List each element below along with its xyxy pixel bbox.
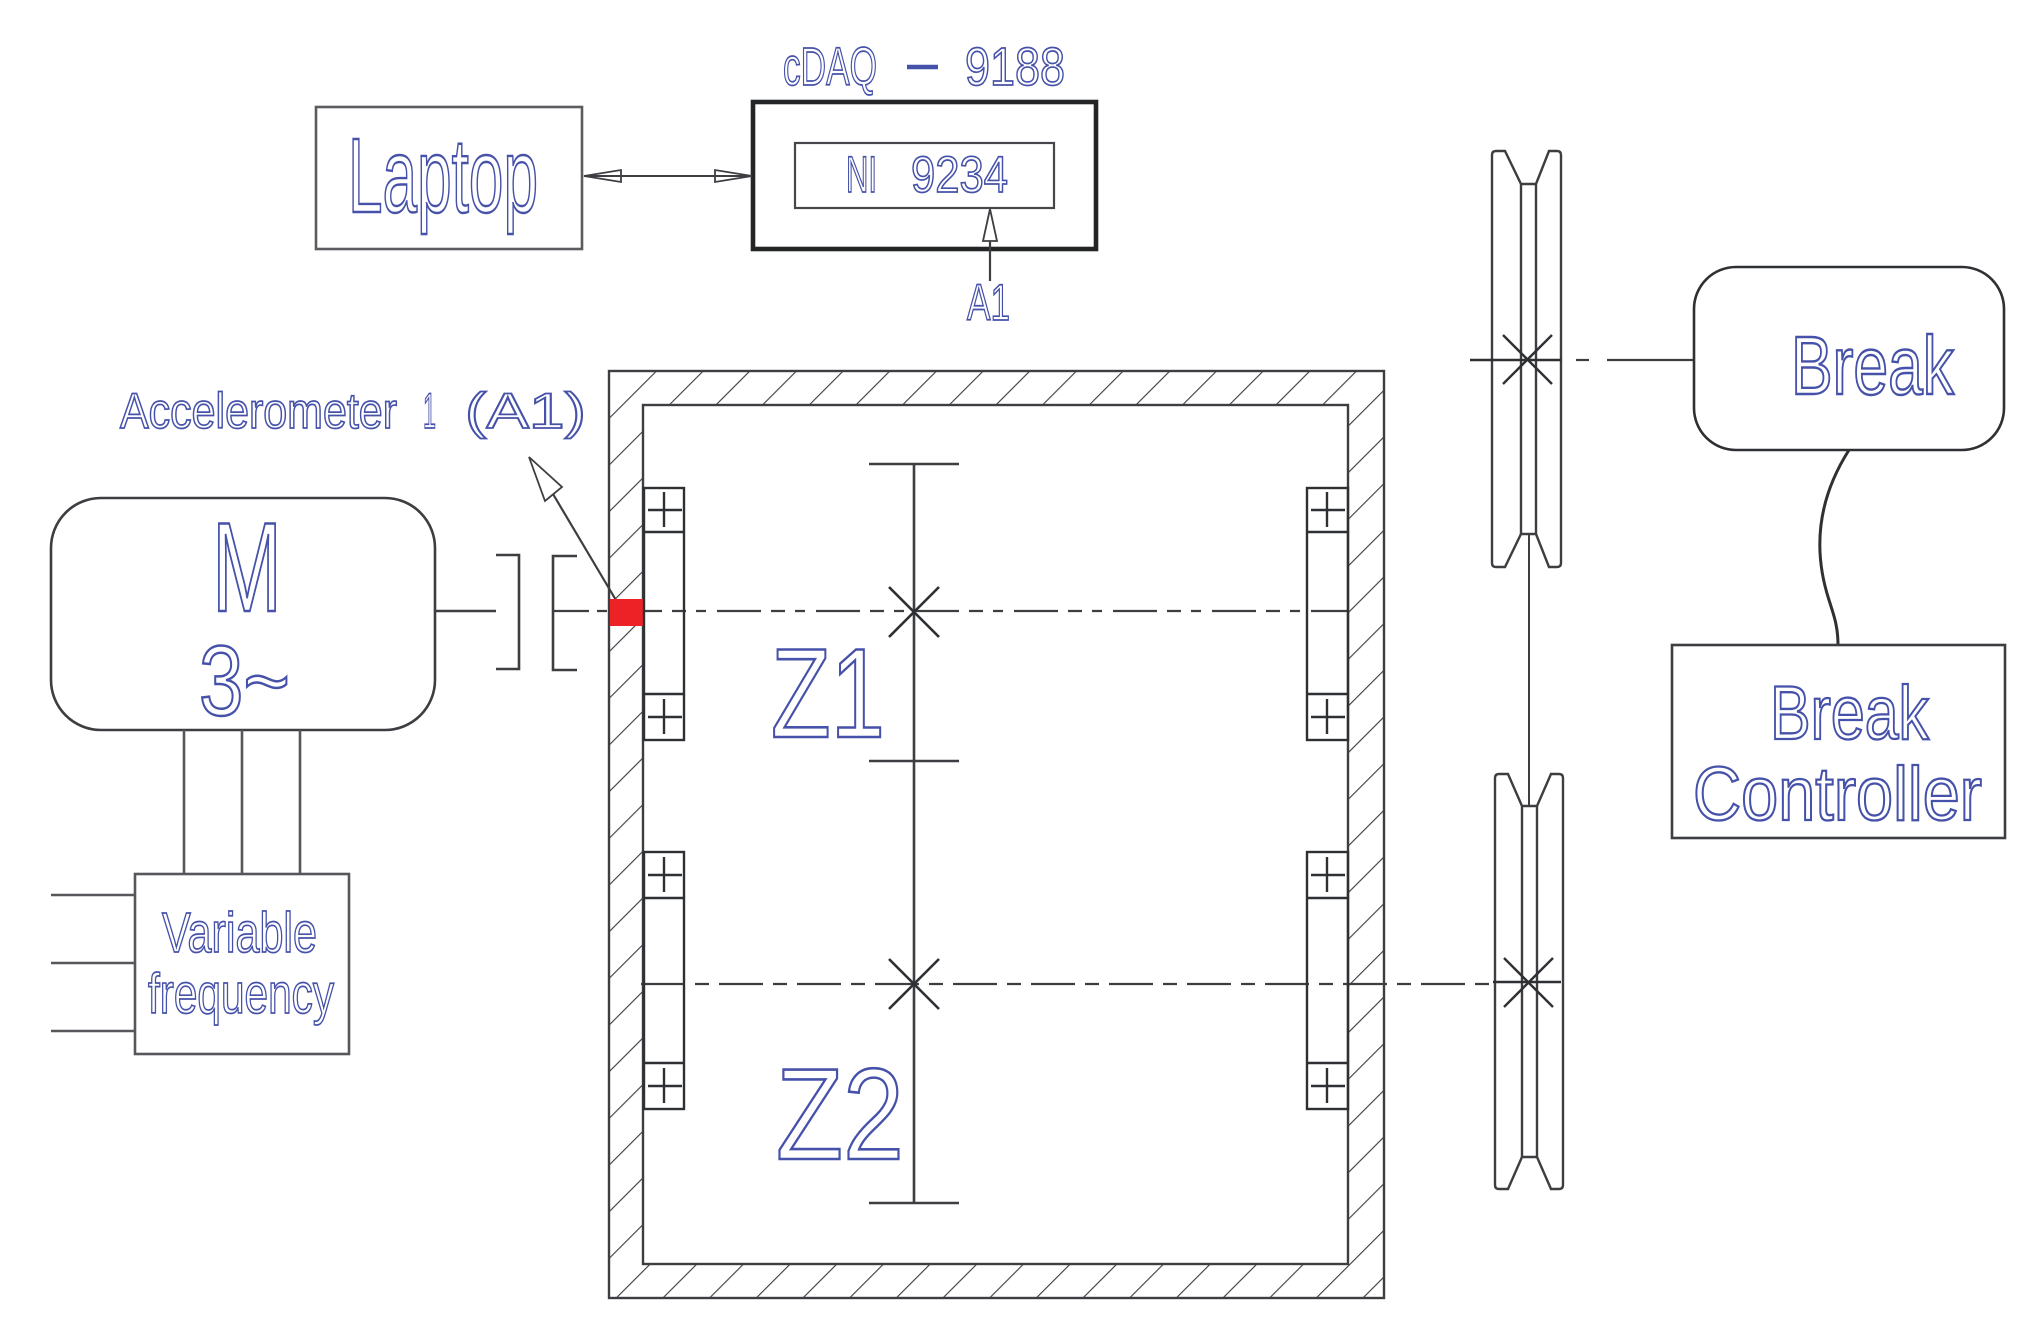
svg-text:9234: 9234 xyxy=(911,146,1008,203)
node bottom pulley center cross xyxy=(1493,958,1561,1007)
wire laptop-cDAQ double arrow xyxy=(584,175,752,177)
break controller box xyxy=(1672,645,2005,838)
svg-text:frequency: frequency xyxy=(148,962,334,1026)
coupling left half xyxy=(496,555,519,669)
svg-text:NI: NI xyxy=(846,146,877,203)
gearbox wall hatching xyxy=(609,371,1384,1298)
centerline shaft 2 xyxy=(641,983,1495,985)
svg-text:Break: Break xyxy=(1791,319,1954,412)
wire motor phase 1 xyxy=(183,730,186,874)
wire supply stub 3 xyxy=(51,1030,135,1033)
centerline shaft 1 xyxy=(597,610,1348,612)
bearing left lower xyxy=(644,852,684,1109)
wire A1 to NI 9234 arrow xyxy=(989,238,991,281)
NI 9234 module box xyxy=(795,143,1054,208)
gear Z2 bottom cap xyxy=(869,1202,959,1205)
motor M box xyxy=(51,498,435,730)
shaft stub wire xyxy=(554,610,589,612)
accelerometer leader arrow xyxy=(529,457,562,501)
wire supply stub 1 xyxy=(51,894,135,897)
label dash xyxy=(907,65,938,70)
bottom pulley xyxy=(1495,774,1563,1189)
svg-text:Break: Break xyxy=(1770,671,1930,756)
bearing right lower xyxy=(1307,852,1348,1109)
bearing left upper xyxy=(644,488,684,740)
svg-text:9188: 9188 xyxy=(965,37,1065,97)
svg-text:Controller: Controller xyxy=(1693,752,1982,837)
cDAQ-9188 chassis box xyxy=(753,102,1096,249)
svg-text:M: M xyxy=(212,496,282,638)
break box xyxy=(1694,267,2004,450)
svg-text:Z2: Z2 xyxy=(776,1041,904,1187)
svg-text:Z1: Z1 xyxy=(771,622,885,764)
bearing right upper xyxy=(1307,488,1348,740)
node gear center 2 cross xyxy=(889,959,939,1009)
wire supply stub 2 xyxy=(51,962,135,965)
node gear center 1 cross xyxy=(889,587,939,637)
centerline pulley to break xyxy=(1576,359,1589,361)
svg-text:cDAQ: cDAQ xyxy=(783,37,877,97)
motor shaft wire xyxy=(435,610,496,613)
wire motor phase 3 xyxy=(299,730,302,874)
variable frequency box xyxy=(135,874,349,1054)
svg-text:Variable: Variable xyxy=(162,901,317,965)
node top pulley center cross xyxy=(1470,335,1561,384)
belt wire xyxy=(1528,534,1530,806)
svg-text:A1: A1 xyxy=(967,274,1010,331)
svg-text:1: 1 xyxy=(423,383,436,439)
svg-text:3~: 3~ xyxy=(199,625,290,736)
gear mesh cap xyxy=(869,760,959,763)
svg-text:Laptop: Laptop xyxy=(348,117,538,235)
gearbox inner wall xyxy=(643,405,1348,1264)
red accelerometer marker A1 xyxy=(610,599,644,626)
laptop box xyxy=(316,107,582,249)
svg-text:Accelerometer: Accelerometer xyxy=(120,383,397,439)
top pulley xyxy=(1492,151,1561,567)
gear shaft vertical xyxy=(913,464,916,1203)
svg-text:(A1): (A1) xyxy=(465,383,586,439)
wire motor phase 2 xyxy=(241,730,244,874)
coupling right half xyxy=(553,556,577,670)
gearbox outer wall xyxy=(609,371,1384,1298)
gear Z1 top cap xyxy=(869,463,959,466)
wire break to controller curve xyxy=(1820,450,1849,645)
